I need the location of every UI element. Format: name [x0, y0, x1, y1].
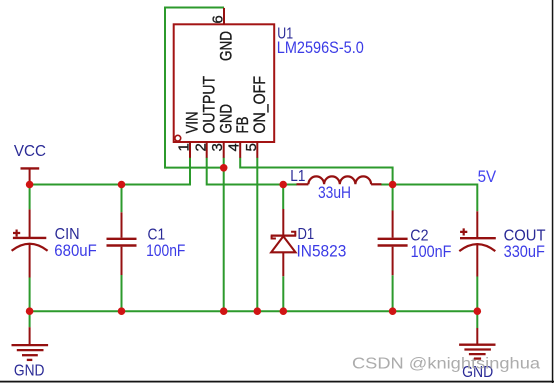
- svg-text:5: 5: [243, 143, 260, 151]
- svg-text:CSDN @knightsinghua: CSDN @knightsinghua: [352, 356, 540, 373]
- U1 pin 3 stub: [223, 142, 225, 158]
- capacitor CIN: [12, 209, 48, 277]
- capacitor C2: [378, 211, 408, 276]
- junction D1 bottom: [280, 307, 288, 315]
- svg-text:1: 1: [176, 143, 193, 151]
- U1 pin 1 stub: [189, 142, 191, 158]
- svg-text:330uF: 330uF: [504, 242, 545, 261]
- junction VCC/CIN: [26, 181, 34, 189]
- wire pin6 GND loop: [165, 8, 224, 168]
- svg-text:GND: GND: [218, 31, 236, 61]
- wire C2 connections: [392, 185, 394, 312]
- power flag VCC: [21, 167, 40, 169]
- junction pin3 bottom: [220, 307, 228, 315]
- U1 pin 4 stub: [239, 142, 241, 158]
- wire FB line: [240, 158, 392, 185]
- inductor L1: [297, 176, 382, 184]
- capacitor COUT: [459, 211, 496, 276]
- svg-text:IN5823: IN5823: [297, 241, 347, 260]
- diode D1 (schottky): [271, 209, 297, 276]
- svg-text:LM2596S-5.0: LM2596S-5.0: [277, 38, 364, 57]
- junction CIN bottom: [26, 307, 34, 315]
- U1 pin 6 stub: [223, 8, 225, 24]
- svg-text:VIN: VIN: [184, 112, 202, 134]
- wire pin3 GND vertical: [223, 158, 225, 312]
- junction C1 bottom: [118, 307, 126, 315]
- svg-text:3: 3: [209, 143, 226, 151]
- wire bottom GND rail: [30, 310, 478, 312]
- svg-text:OUTPUT: OUTPUT: [200, 76, 218, 133]
- junction D1 top: [279, 181, 287, 189]
- junction C2 bottom: [389, 307, 397, 315]
- junction GND node under IC: [220, 164, 228, 172]
- svg-text:ON_OFF: ON_OFF: [251, 76, 269, 134]
- svg-text:2: 2: [192, 143, 209, 151]
- junction C1 top: [118, 181, 126, 189]
- svg-text:100nF: 100nF: [146, 241, 185, 260]
- wire C1 connections: [121, 185, 123, 312]
- svg-text:GND: GND: [217, 104, 235, 134]
- wire OUTPUT rail: [207, 158, 297, 185]
- U1 pin 2 stub: [206, 142, 208, 158]
- IC U1 body: [174, 24, 275, 142]
- svg-text:680uF: 680uF: [54, 241, 97, 260]
- wire COUT bottom / right GND stub: [476, 277, 478, 329]
- svg-text:GND: GND: [14, 362, 45, 379]
- ground symbol left: [12, 327, 49, 360]
- svg-text:5V: 5V: [478, 167, 497, 186]
- wire ON_OFF vertical: [256, 158, 258, 312]
- junction COUT bottom: [474, 307, 482, 315]
- junction ON_OFF bottom: [253, 307, 261, 315]
- U1 pin 5 stub: [256, 142, 258, 158]
- junction FB/C2 top: [389, 181, 397, 189]
- ground symbol right: [459, 328, 495, 359]
- wire VCC rail and VIN drop: [30, 158, 190, 185]
- svg-text:6: 6: [209, 15, 226, 23]
- svg-text:4: 4: [226, 143, 243, 151]
- svg-text:33uH: 33uH: [318, 183, 351, 202]
- capacitor C1: [107, 212, 137, 275]
- U1 pin1 indicator: [175, 135, 181, 141]
- wire D1 connections: [282, 185, 284, 312]
- wire CIN connections: [29, 185, 31, 328]
- frame right line: [552, 0, 554, 383]
- svg-text:L1: L1: [290, 168, 305, 185]
- svg-text:FB: FB: [234, 116, 252, 133]
- wire 5V output node: [381, 185, 478, 212]
- svg-text:100nF: 100nF: [411, 242, 452, 261]
- svg-text:VCC: VCC: [14, 143, 46, 160]
- frame bottom line: [0, 381, 554, 383]
